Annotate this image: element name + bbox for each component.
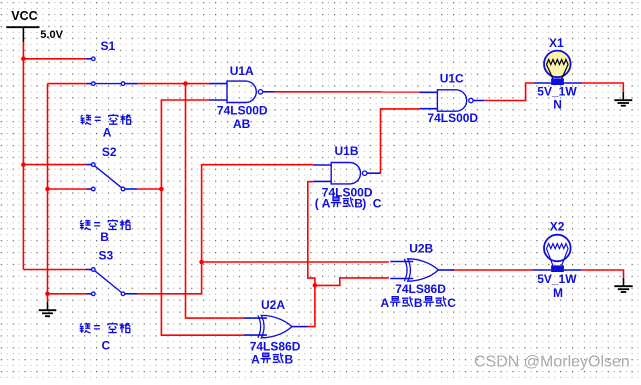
wire node C : S3 common to U1B input and U2B input (137, 165, 389, 294)
label key = space C (80, 321, 131, 353)
watermark CSDN @MorleyOlsen (474, 354, 630, 371)
svg-text:N: N (553, 97, 562, 111)
wire U2A output node (A xor B) to U1B input and U2B input (308, 182, 389, 327)
svg-text:74LS00D: 74LS00D (217, 104, 268, 118)
svg-text:5.0V: 5.0V (40, 29, 63, 41)
wire VCC bus (22, 42, 24, 269)
label U2A (261, 298, 285, 312)
svg-text:VCC: VCC (11, 9, 37, 23)
value label 5.0V (40, 29, 63, 41)
ground (X2) (614, 278, 632, 292)
junction node A (183, 81, 188, 86)
svg-text:5V_1W: 5V_1W (537, 272, 577, 286)
XOR gate U2B (390, 259, 454, 281)
junction node A xor B (313, 283, 318, 288)
label key = space A (81, 112, 132, 139)
wire ground bus (47, 84, 49, 302)
svg-text:A: A (103, 126, 112, 140)
svg-text:C: C (102, 338, 111, 352)
wire U2B output to lamp X2 (452, 269, 533, 271)
wire U1B output to U1C input (381, 109, 420, 173)
label S3 (99, 249, 114, 263)
label A xor B xor C (381, 296, 457, 310)
svg-text:A: A (251, 352, 260, 366)
svg-text:5V_1W: 5V_1W (537, 84, 577, 98)
switch S3 (86, 268, 137, 296)
label U1A (230, 64, 254, 78)
junction node C (199, 260, 204, 265)
svg-text:(: ( (315, 196, 319, 210)
svg-text:U2A: U2A (261, 298, 285, 312)
label S2 (102, 145, 117, 159)
label (A xor B) C (315, 196, 382, 210)
svg-text:AB: AB (233, 117, 251, 131)
value label 74LS86D (U2A) (250, 339, 301, 353)
svg-text:): ) (362, 196, 366, 210)
value label 5V_1W (X2) (537, 272, 577, 286)
label AB (233, 117, 251, 131)
switch S2 (86, 163, 137, 191)
wire U1A output to U1C input (274, 91, 419, 93)
svg-text:S3: S3 (99, 249, 114, 263)
XOR gate U2A (244, 315, 308, 337)
wire S1 pin2 to ground bus (48, 83, 87, 85)
svg-text:B: B (414, 296, 423, 310)
value label 74LS00D (U1A) (217, 104, 268, 118)
svg-text:=: = (94, 112, 101, 126)
svg-text:B: B (100, 230, 109, 244)
label A xor B (251, 352, 293, 366)
svg-text:U1B: U1B (335, 144, 359, 158)
label S1 (101, 39, 116, 53)
label U2B (409, 242, 433, 256)
value label 5V_1W (X1) (537, 84, 577, 98)
svg-text:74LS00D: 74LS00D (427, 111, 478, 125)
svg-text:A: A (381, 296, 390, 310)
svg-text:X2: X2 (550, 220, 565, 234)
junction VCC/S1 (21, 57, 26, 62)
wire S3 pin2 to ground bus (48, 293, 87, 295)
switch S1 (86, 57, 137, 85)
wire VCC to S3 pin1 (23, 269, 86, 271)
junction node B (159, 187, 164, 192)
svg-text:74LS86D: 74LS86D (395, 282, 446, 296)
junction ground/S3 (45, 292, 50, 297)
junction ground/S2 (45, 187, 50, 192)
label X1 (549, 36, 564, 50)
label U1B (335, 144, 359, 158)
svg-text:C: C (447, 296, 456, 310)
svg-text:U2B: U2B (409, 242, 433, 256)
svg-text:=: = (93, 321, 100, 335)
NAND gate U1B (313, 163, 380, 184)
wire VCC to S2 pin1 (23, 164, 86, 166)
label N (553, 97, 562, 111)
label key = space B (80, 218, 131, 245)
lamp X1 (lit) (533, 51, 581, 85)
NAND gate U1A (209, 81, 274, 102)
svg-text:C: C (373, 196, 382, 210)
ground (switch bus) (39, 302, 57, 316)
svg-text:B: B (285, 352, 294, 366)
NAND gate U1C (419, 90, 484, 111)
wire lamp X1 to ground (582, 83, 624, 92)
value label 74LS86D (U2B) (395, 282, 446, 296)
svg-text:U1A: U1A (230, 64, 254, 78)
svg-text:CSDN @MorleyOlsen: CSDN @MorleyOlsen (474, 354, 630, 371)
label U1C (440, 72, 464, 86)
label X2 (550, 220, 565, 234)
wire lamp X2 to ground (582, 270, 624, 278)
svg-text:U1C: U1C (440, 72, 464, 86)
label M (553, 286, 563, 300)
value label 74LS00D (U1C) (427, 111, 478, 125)
junction VCC/S2 (21, 162, 26, 167)
lamp X2 (off) (533, 235, 582, 272)
svg-text:M: M (553, 286, 563, 300)
ground (X1) (614, 92, 632, 106)
svg-text:X1: X1 (549, 36, 564, 50)
wire U1C output to lamp X1 (485, 83, 534, 101)
wire node A : S1 common to U1A input and U2A input (137, 84, 244, 319)
wire VCC to S1 pin1 (23, 58, 86, 60)
svg-text:S2: S2 (102, 145, 117, 159)
svg-text:S1: S1 (101, 39, 116, 53)
wire node B : S2 common to U1A input and U2A input (137, 100, 244, 335)
svg-text:74LS86D: 74LS86D (250, 339, 301, 353)
svg-text:A: A (322, 196, 331, 210)
wire S2 pin2 to ground bus (48, 188, 87, 190)
value label 74LS00D (U1B) (322, 186, 373, 200)
power VCC symbol (6, 9, 39, 43)
